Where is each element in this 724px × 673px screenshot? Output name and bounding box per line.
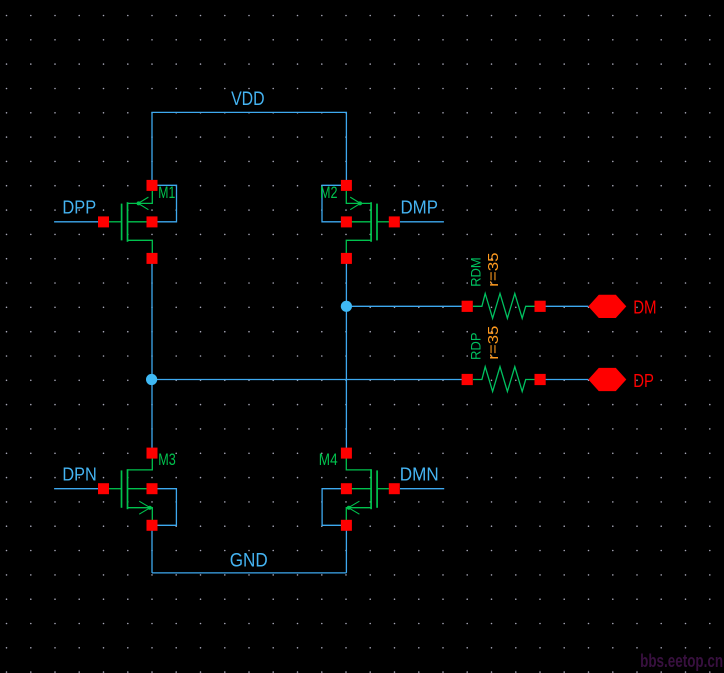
pin square M1 drain <box>147 253 158 264</box>
wire M3 bulk-source tie <box>156 489 176 526</box>
svg-text:DPN: DPN <box>62 465 96 485</box>
svg-text:r=35: r=35 <box>486 326 502 360</box>
wire resistor RDM to pin DM <box>546 305 589 307</box>
io pin DM (hexagon) <box>588 295 626 318</box>
wire node DM to resistor RDM <box>346 305 462 307</box>
pin square RDM left <box>462 301 473 312</box>
resistor RDP body <box>473 367 535 392</box>
svg-text:RDM: RDM <box>467 257 483 286</box>
svg-text:DPP: DPP <box>62 198 96 218</box>
wire net DMP stub <box>400 221 444 223</box>
transistor M4 (NMOS, mirrored) <box>346 459 389 521</box>
pin square RDP left <box>462 374 473 385</box>
wire net DMN stub <box>400 488 444 490</box>
pin square M4 drain <box>341 448 352 459</box>
svg-text:DP: DP <box>633 370 654 391</box>
svg-text:M4: M4 <box>319 451 338 469</box>
pin square M4 source <box>341 520 352 531</box>
junction node DP <box>146 374 157 385</box>
pin square M3 bulk <box>147 483 158 494</box>
wire net DPP stub <box>54 221 98 223</box>
pin square M3 gate <box>98 483 109 494</box>
svg-text:RDP: RDP <box>467 332 483 360</box>
pin square M2 bulk <box>341 216 352 227</box>
wire M3 source to GND rail <box>151 530 153 573</box>
wire resistor RDP to pin DP <box>546 379 589 381</box>
wire GND rail <box>152 572 346 574</box>
svg-text:M3: M3 <box>158 451 176 469</box>
wire M4 bulk-source tie <box>322 489 343 526</box>
pin square M1 source <box>147 180 158 191</box>
wire M4 source to GND rail <box>345 530 347 573</box>
wire node DP to resistor RDP <box>152 379 462 381</box>
transistor M3 (NMOS) <box>109 459 152 521</box>
wire net DPN stub <box>54 488 98 490</box>
wire M1 drain to node DP column <box>151 263 153 448</box>
svg-text:VDD: VDD <box>231 89 265 110</box>
svg-text:M1: M1 <box>158 184 175 202</box>
svg-text:M2: M2 <box>320 184 338 202</box>
pin square M2 gate <box>389 216 400 227</box>
pin square M2 drain <box>341 253 352 264</box>
svg-text:DMP: DMP <box>401 198 439 218</box>
svg-text:r=35: r=35 <box>486 253 502 287</box>
svg-text:GND: GND <box>230 551 268 572</box>
transistor M2 (PMOS, mirrored) <box>346 191 389 253</box>
wire M2 drain to node DM column <box>345 263 347 448</box>
wire VDD rail <box>152 112 346 181</box>
pin square M3 drain <box>147 448 158 459</box>
svg-text:bbs.eetop.cn: bbs.eetop.cn <box>640 651 723 671</box>
pin square M2 source <box>341 180 352 191</box>
io pin DP (hexagon) <box>588 368 626 391</box>
wire M1 source-bulk tie <box>156 185 177 222</box>
pin square M4 bulk <box>341 483 352 494</box>
pin square RDM right <box>535 301 546 312</box>
pin square M3 source <box>147 520 158 531</box>
transistor M1 (PMOS) <box>109 191 152 253</box>
svg-text:DMN: DMN <box>400 465 439 485</box>
pin square M4 gate <box>389 483 400 494</box>
wire M2 source-bulk tie <box>322 185 343 222</box>
junction node DM <box>341 301 352 312</box>
resistor RDM body <box>473 294 535 319</box>
pin square RDP right <box>535 374 546 385</box>
pin square M1 bulk <box>147 216 158 227</box>
svg-text:DM: DM <box>633 296 656 317</box>
pin square M1 gate <box>98 216 109 227</box>
